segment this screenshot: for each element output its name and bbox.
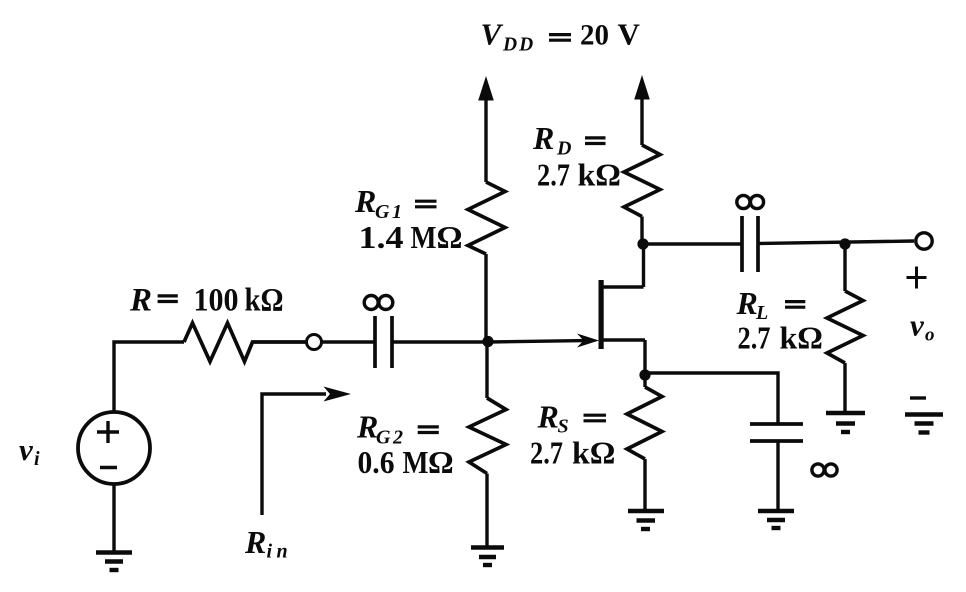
svg-text:v: v [19,432,34,467]
svg-text:2.7: 2.7 [530,434,563,470]
svg-text:R: R [736,285,758,321]
svg-text:R: R [537,399,559,435]
svg-text:2.7: 2.7 [738,320,771,356]
svg-text:20: 20 [580,19,609,52]
svg-text:R: R [129,283,152,319]
svg-text:kΩ: kΩ [572,434,615,470]
svg-text:2.7: 2.7 [537,157,570,193]
svg-text:V: V [618,17,641,52]
svg-text:i: i [34,448,40,470]
svg-text:1.4: 1.4 [359,219,404,255]
svg-text:in: in [267,541,293,563]
svg-text:R: R [244,524,266,560]
svg-text:Ω: Ω [437,219,463,255]
svg-text:V: V [481,17,504,52]
svg-text:R: R [356,409,378,445]
svg-text:o: o [925,325,935,346]
svg-text:M: M [403,444,429,480]
svg-text:M: M [411,219,437,255]
svg-text:R: R [354,183,376,219]
svg-text:kΩ: kΩ [780,320,823,356]
svg-text:0.6: 0.6 [358,444,395,480]
svg-text:R: R [532,120,554,156]
svg-text:Ω: Ω [428,444,454,480]
svg-text:100: 100 [194,283,239,319]
svg-text:kΩ: kΩ [245,283,284,319]
svg-text:kΩ: kΩ [578,157,621,193]
svg-text:v: v [910,308,925,343]
svg-text:DD: DD [502,35,535,56]
